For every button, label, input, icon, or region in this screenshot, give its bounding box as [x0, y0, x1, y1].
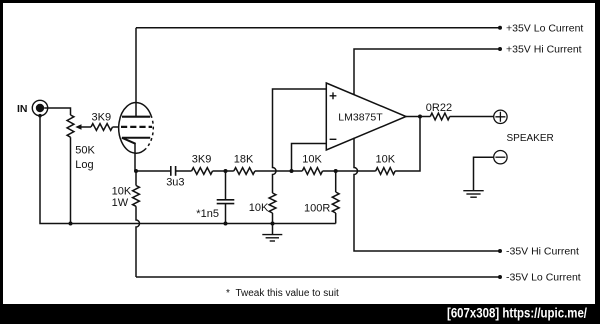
tube V1 envelope right dashed arc	[146, 115, 153, 148]
potentiometer VR1 50K Log body	[67, 115, 74, 137]
wire R3 to node A	[213, 170, 234, 172]
border frame	[0, 0, 600, 3]
wire node C to R8	[336, 170, 376, 172]
op-amp U1 LM3875T triangle	[326, 83, 406, 150]
resistor R6 10K feedback shunt arm	[302, 168, 322, 175]
wire jack centre to pot top	[44, 108, 70, 115]
svg-text:Log: Log	[75, 159, 93, 171]
tube V1 envelope (solid part)	[119, 103, 151, 154]
wire node K to R2 top	[135, 171, 137, 186]
wire jack sleeve to ground bus	[40, 116, 71, 224]
svg-text:10K: 10K	[249, 202, 269, 214]
wire -35V Hi Current rail (V- pin of U1, hops over feedback line)	[354, 138, 500, 251]
tube V1 cathode	[122, 138, 150, 144]
svg-text:1W: 1W	[112, 197, 129, 209]
resistor R1 3K9 grid stopper	[91, 124, 113, 131]
wire R4 to node B	[255, 170, 292, 172]
node A junction	[224, 169, 228, 173]
capacitor C2 *1n5 plates	[217, 199, 235, 201]
svg-text:[607x308] https://upic.me/: [607x308] https://upic.me/	[447, 306, 587, 321]
node -35V Lo Current terminal	[498, 275, 502, 279]
wire -35V Lo Current rail	[136, 276, 500, 278]
resistor R8 10K feedback	[376, 168, 395, 175]
wire +35V Lo Current rail	[136, 27, 500, 29]
wire +35V Hi Current rail	[354, 49, 500, 95]
terminal speaker + circle	[494, 110, 507, 123]
wire 3K9 to tube grid	[113, 126, 119, 128]
svg-text:+35V Hi Current: +35V Hi Current	[506, 44, 582, 56]
ground symbol (signal ground)	[272, 224, 274, 235]
svg-text:10K: 10K	[302, 154, 322, 166]
resistor R3 3K9 series	[192, 168, 213, 175]
node +35V Hi Current terminal	[498, 47, 502, 51]
resistor R9 0R22 output	[430, 113, 449, 120]
node J1 sleeve junction	[38, 114, 42, 118]
ground symbol (speaker return)	[463, 190, 483, 192]
node output junction	[418, 115, 422, 119]
wire R2 bottom to -35V Lo rail (hops over ground bus)	[136, 206, 140, 277]
svg-text:LM3875T: LM3875T	[338, 111, 383, 123]
wire cathode lead to node K	[134, 143, 136, 171]
svg-text:100R: 100R	[304, 202, 330, 214]
node B junction (inverting input net)	[290, 169, 294, 173]
svg-text:3K9: 3K9	[92, 112, 112, 124]
resistor R7 100R to ground	[332, 192, 339, 213]
resistor R5 10K to ground	[269, 193, 276, 213]
wire R6 to node C	[292, 170, 336, 172]
U1 - input symbol	[330, 138, 337, 140]
connector J1 IN jack centre pin	[36, 104, 44, 112]
wire ground bus	[71, 223, 336, 225]
svg-text:0R22: 0R22	[426, 102, 452, 114]
footer watermark bar	[0, 304, 600, 324]
wire pot bottom to ground bus	[70, 137, 72, 223]
node -35V Hi Current terminal	[498, 249, 502, 253]
svg-text:+35V Lo Current: +35V Lo Current	[506, 23, 583, 35]
svg-text:18K: 18K	[234, 154, 254, 166]
resistor R2 10K 1W cathode load	[133, 186, 140, 207]
wire node A to C2	[225, 171, 227, 199]
svg-text:SPEAKER: SPEAKER	[507, 133, 554, 144]
wire speaker - to chassis ground	[474, 157, 494, 191]
wire U1 output	[406, 116, 430, 118]
U1 + input symbol	[330, 92, 337, 99]
node +35V Lo Current terminal	[498, 26, 502, 30]
wire U1 + input (hops over signal line) to R5	[273, 89, 327, 193]
wire C2 to ground bus	[225, 204, 227, 224]
node K cathode junction	[134, 169, 138, 173]
node ground bus junction	[271, 222, 275, 226]
svg-text:10K: 10K	[376, 154, 396, 166]
potentiometer VR1 wiper arrow	[78, 126, 92, 128]
resistor R4 18K series	[234, 168, 255, 175]
node C junction	[334, 169, 338, 173]
svg-text:3K9: 3K9	[192, 154, 212, 166]
connector J1 IN jack outer ring	[32, 100, 47, 115]
node C2 bottom junction	[224, 222, 228, 226]
wire R8 to output node	[395, 117, 420, 172]
svg-text:50K: 50K	[75, 145, 95, 157]
tube V1 grid (dashed)	[121, 126, 152, 128]
capacitor C1 3u3 plates	[170, 166, 172, 176]
wire node K to C1	[136, 170, 170, 172]
wire R9 to speaker +	[450, 116, 494, 118]
terminal speaker - circle	[494, 151, 507, 164]
svg-text:*1n5: *1n5	[196, 208, 219, 220]
tube V1 anode plate	[122, 116, 150, 118]
tube V1 anode lead from +35V Lo rail	[135, 28, 137, 117]
wire node C to R7 and R7 to ground bus	[335, 171, 337, 224]
svg-text:10K: 10K	[112, 186, 132, 198]
node pot bottom junction	[69, 222, 73, 226]
svg-text:-35V Hi Current: -35V Hi Current	[506, 246, 579, 258]
wire R5 bottom to ground bus	[272, 213, 274, 224]
svg-text:* Tweak this value to suit: * Tweak this value to suit	[226, 288, 339, 299]
svg-text:3u3: 3u3	[166, 176, 184, 188]
wire U1 - input to node B	[292, 144, 327, 172]
wire C1 to R3	[176, 170, 192, 172]
svg-text:-35V Lo Current: -35V Lo Current	[506, 272, 581, 284]
svg-text:IN: IN	[17, 103, 28, 115]
